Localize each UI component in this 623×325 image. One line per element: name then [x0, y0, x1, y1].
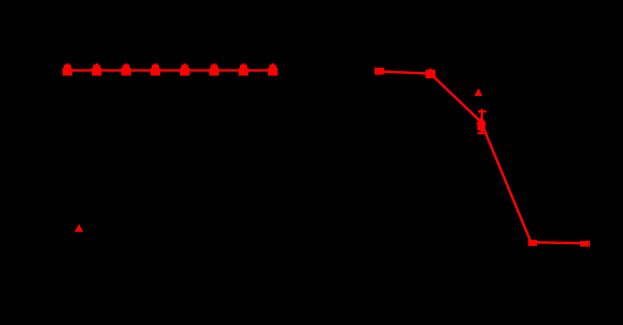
series B point P5 square marker	[580, 241, 588, 247]
legend triangle marker	[75, 224, 84, 232]
series B (right) polyline	[379, 71, 586, 243]
series A marker cluster 7	[238, 63, 248, 75]
series A marker cluster 8	[268, 63, 278, 75]
series B point P3 square marker	[477, 124, 485, 130]
series A (left flat) line	[64, 69, 276, 71]
series B point P5 right x-error cap	[588, 241, 590, 247]
series B point P1 left x-error cap	[375, 67, 377, 74]
series B point P2 triangle marker	[425, 68, 435, 76]
series A marker cluster 6	[209, 63, 219, 75]
series B point P1 square marker	[376, 68, 382, 75]
series A marker cluster 4	[150, 63, 160, 75]
series B point P3 error bar bottom cap	[477, 132, 486, 134]
series A marker cluster 3	[121, 63, 131, 75]
series B point P3 triangle marker	[476, 116, 487, 124]
series B point P3 error bar top cap	[478, 110, 487, 112]
series B point P1 right x-error cap	[383, 67, 385, 74]
series B point P4 square marker	[528, 240, 537, 246]
series A marker cluster 5	[180, 63, 190, 75]
series B point P3 error bar vertical	[481, 109, 483, 134]
series A marker cluster 2	[92, 63, 102, 75]
series A marker cluster 1	[62, 63, 72, 75]
series B point P2 square marker	[426, 70, 436, 79]
outlier triangle marker above P3	[474, 88, 482, 96]
